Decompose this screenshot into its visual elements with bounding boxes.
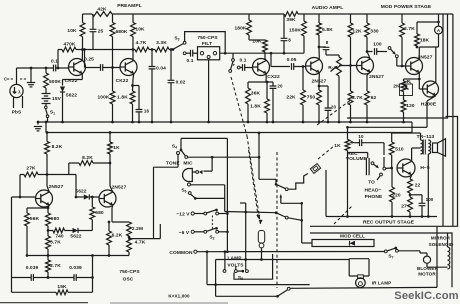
svg-text:1.8K: 1.8K [250,104,261,110]
wire 680 osc1 [47,208,49,213]
resistor 750 [317,90,322,105]
resistor 12K [348,23,353,37]
resistor 8.2K osc1 [45,142,50,155]
junction Q6 base bias [401,65,404,68]
resistor 18K [415,34,420,46]
wire R2 [338,55,340,57]
capacitor 0.1 input [54,65,56,72]
svg-text:MOD CELL: MOD CELL [340,234,365,239]
wire 6.2K top [108,222,110,231]
svg-text:740: 740 [55,234,64,240]
wire -6V [194,231,204,233]
svg-text:0.1: 0.1 [239,58,246,64]
wire feed column [226,138,228,252]
transformer TR-113 [421,140,423,154]
resistor 680K [110,23,115,37]
record head [366,158,369,175]
svg-text:62: 62 [371,95,377,101]
svg-text:8.2K: 8.2K [82,155,93,161]
wire S2a out [219,213,228,215]
svg-text:39K: 39K [286,17,296,23]
junction Q3 emitter [266,81,269,84]
wire Q6 collector [418,47,420,60]
wire 100cap rec [410,194,422,196]
jack plug arrow [280,194,282,198]
svg-text:2.7K: 2.7K [404,26,415,32]
wire 740 left [48,230,53,232]
wire 2.7K mod [350,66,352,92]
wire 0.1 to Q3 base [245,67,253,69]
junction diode bus [61,121,64,124]
switch playrec 2 [276,213,285,217]
resistor 150K [302,21,307,36]
svg-text:6.2K: 6.2K [112,233,123,239]
wire 18K top [417,21,439,23]
svg-text:750-CPS: 750-CPS [197,35,218,41]
svg-text:PHONE: PHONE [365,194,383,200]
wire Q1 collector [81,50,83,61]
resistor 680 osc2 [90,207,95,220]
capacitor 0.1 stage3 [243,64,245,71]
resistor 2.7K mod [348,91,353,105]
wire filter input [186,52,191,54]
resistor 740 [53,228,65,233]
wire osc feed [129,238,160,240]
junction 0.05 feed [270,52,273,55]
svg-text:S2: S2 [209,235,214,241]
wire S6 lower [195,197,224,199]
resistor 56K [25,213,30,226]
switch S1 [45,104,47,107]
wire 500K top [45,68,47,73]
wire top supply bus [83,13,93,15]
svg-text:5622: 5622 [66,93,77,99]
junction 1.8K s3 bus [266,121,269,124]
dashed link S3-lamp a [231,77,247,136]
svg-text:5622: 5622 [75,189,86,195]
resistor 1.8K preamp [130,91,135,104]
capacitor 0.1 filter [191,50,193,57]
resistor 36K [246,88,251,104]
resistor 62 [365,91,370,105]
svg-text:VOLUME: VOLUME [346,156,368,162]
svg-text:36K: 36K [251,91,261,97]
junction cap20 bus [272,121,275,124]
svg-text:8: 8 [326,40,329,45]
wire mic lower [191,184,225,186]
resistor 4.7K osc [127,238,132,252]
resistor 1K osc [108,142,113,154]
wire rec bottom [326,216,437,218]
wire 22-27 [409,193,411,197]
potentiometer RL 2K [401,81,406,92]
wire COMMON to S5 [224,252,226,270]
wire S7 out [398,250,420,252]
wire 10K top [82,14,84,23]
wire filter bottom lead [208,60,210,122]
wire S5 right leg [245,203,247,270]
wire 680 osc2 top [91,197,93,207]
resistor 22 rec [408,179,413,193]
resistor 27 rec [408,197,413,212]
resistor 2.7K osc [46,260,51,272]
wire 2.7K osc [47,256,49,261]
svg-text:25: 25 [98,29,104,35]
wire Q9 base [89,196,99,198]
wire jack to Q6 base [396,58,398,66]
capacitor 10 rec [360,139,362,146]
wire right 0.039 up [92,256,94,278]
wire Q8 base [12,196,36,198]
resistor 39K [284,12,298,17]
svg-text:22: 22 [415,183,421,189]
svg-text:REC OUTPUT STAGE: REC OUTPUT STAGE [363,220,415,226]
svg-text:2.7K: 2.7K [50,263,61,269]
photocell leads [13,97,15,109]
dashed link rec [334,206,352,224]
transistor Q7 H200E [423,81,439,97]
wire COMMON [197,251,385,253]
junction 36K bus [247,121,250,124]
wire Q3 collector [264,52,266,59]
wire 10 rec [354,142,359,144]
diode 5622 preamp [60,87,65,93]
wire diode1 left [76,196,84,198]
switch S3 [172,48,175,51]
wire mod cell feed [301,203,303,243]
svg-text:TR−113: TR−113 [417,134,435,140]
wire 8.2K osc2 left [69,162,79,164]
svg-text:−12 V: −12 V [176,212,190,218]
capacitor 20 stage4 [325,108,332,110]
svg-text:27: 27 [401,204,407,210]
capacitor 0.05 [292,63,294,70]
transistor Q4 2N527 [306,58,323,75]
potentiometer R2 [337,57,342,76]
svg-text:220: 220 [392,193,401,199]
svg-text:15V: 15V [52,96,62,102]
svg-text:COMMON: COMMON [169,250,193,256]
dashed link top right [317,99,352,125]
svg-text:0.02: 0.02 [176,80,186,86]
wire cap 0.02 [170,50,172,81]
dashed gang column [276,152,278,288]
switch S2b [204,230,207,233]
svg-text:150K: 150K [289,28,301,34]
dashed cover C [7,78,26,80]
svg-text:10K: 10K [135,27,145,33]
wire TONE drop [177,155,179,168]
dashed link cross [249,150,259,219]
svg-text:100: 100 [426,197,434,202]
svg-text:CK22: CK22 [116,78,129,84]
wire filter output [220,52,304,54]
wire Q1 emitter [81,73,83,79]
svg-text:0.25: 0.25 [84,57,94,63]
box 750-CPS filter [198,47,220,60]
junction filter bypass [224,52,227,55]
battery 15V [42,94,51,104]
IR lamp [358,275,364,279]
resistor 2.2M [127,222,132,236]
wire 4.7K bottom [128,252,130,256]
resistor 10K stage3 [263,40,268,52]
wire rec line y133 [392,132,421,134]
svg-text:20: 20 [331,105,337,110]
svg-text:S6: S6 [181,188,186,194]
svg-text:100K: 100K [98,95,110,101]
wire lamp column [258,133,260,179]
wire Q8 collector [47,186,49,192]
wire cap8b [319,46,326,48]
wire 10K2 to coll [132,37,134,61]
wire 1K osc [109,133,111,143]
wire pot to head [347,151,349,153]
wire 56K bottom [26,226,28,256]
wire head to base [386,167,392,169]
svg-text:8.2K: 8.2K [52,144,63,150]
wire 8.2K osc1 [46,133,48,142]
switch playrec 1 [276,184,285,188]
transistor Q9 2N527 osc [99,190,116,207]
terminal COMMON [194,250,197,253]
svg-text:12K: 12K [352,29,362,35]
wire speaker return [427,158,429,217]
svg-text:100: 100 [373,42,382,48]
wire 0.25 feed [84,50,86,68]
svg-text:K×X1,000: K×X1,000 [168,294,190,299]
wire 680K top [112,14,114,23]
junction 100K bus [111,121,114,124]
resistor 330 [365,23,370,37]
wire 100cap feed [367,51,373,53]
svg-text:680: 680 [51,216,60,222]
junction Q6 coll [416,46,419,49]
wire Q6 emitter [418,73,420,79]
photocell PbS [10,84,23,97]
svg-text:15K: 15K [57,284,67,290]
wire S4 loop to mic [188,156,213,158]
box MOD CELL [312,240,374,247]
junction 12K base [349,64,352,67]
junction 0.25 feed [83,48,86,51]
junction RL tap [418,78,421,81]
solenoid mirror [448,247,450,269]
svg-text:S4: S4 [172,144,177,150]
junction emitter4 [318,85,321,88]
wire 27K to x76 [47,174,76,176]
svg-text:HEAD−: HEAD− [364,188,381,194]
transistor Q5 2N527 [357,57,374,74]
resistor 510 [389,142,394,155]
junction 10K2 y49 [132,48,135,51]
capacitor 20 stage3 [270,86,277,88]
svg-text:330: 330 [370,29,379,35]
resistor 6.8K [317,23,322,35]
wire rec right [436,216,438,218]
svg-text:OSC: OSC [123,277,134,283]
svg-text:2N527: 2N527 [369,74,384,80]
junction filter bus [207,121,210,124]
wire S3 bypass loop [185,32,226,54]
ground bus [38,121,412,123]
svg-text:1K: 1K [113,145,120,151]
wiper wire rec [351,141,355,144]
wiper R2 [331,67,337,72]
wire 100 to jack [377,51,387,53]
wire osc mid line [27,255,129,257]
potentiometer 1K rec [345,140,350,151]
wire Q7 base [418,79,420,89]
junction 0.04 bus [151,121,154,124]
svg-text:680: 680 [95,210,104,216]
wire 120 [403,92,405,101]
wire Q2 emitter [132,73,135,79]
svg-text:MOD POWER STAGE: MOD POWER STAGE [381,4,432,10]
terminal S5 b [234,270,237,273]
wire interstage y49 [83,49,136,51]
wire 180K to 10K [248,35,250,40]
wire right edge drop [442,14,444,226]
wire cap 0.04 [151,50,153,67]
wire rec output right [442,257,444,259]
capacitor 100 rec [419,203,426,205]
box RL [400,84,413,96]
junction 22K bus [302,121,305,124]
svg-text:22K: 22K [286,95,296,101]
wire 470K right [76,49,83,51]
junction R2 bus [338,121,341,124]
wire to lever2 [246,211,276,214]
svg-text:750: 750 [307,95,316,101]
svg-text:MIC: MIC [183,161,193,167]
capacitor 8 coupling [323,47,330,49]
svg-text:0.05: 0.05 [287,57,297,63]
svg-text:2N527: 2N527 [49,184,64,190]
jack mod in [388,47,391,50]
svg-text:TO: TO [368,180,375,186]
wire mic out [211,156,214,159]
dashed link modcell lamp [318,146,334,159]
terminal filter input [183,52,186,55]
wire Q7 collector [435,47,437,83]
svg-text:3.3K: 3.3K [156,40,167,46]
svg-text:10K: 10K [67,28,77,34]
wire 150K [303,14,305,21]
resistor 10K preamp2 [131,23,136,37]
wire 27K right [38,174,47,176]
wire enclosure 2 [310,233,452,287]
capacitor 0.039 b [74,274,76,281]
svg-text:470K: 470K [64,42,76,48]
svg-text:FILT: FILT [202,41,212,47]
wire Q7 emitter [427,96,436,101]
svg-text:AUDIO AMPL: AUDIO AMPL [312,5,344,11]
wire 62 [367,72,370,75]
switch S4 [180,149,183,152]
wire feedback left [11,197,13,292]
wire 0.25 to Q2 base [103,67,120,69]
supply rail [46,132,412,134]
junction input-500K [45,67,48,70]
transistor Q1 CK22 [69,59,86,76]
svg-text:16: 16 [144,109,150,114]
box S5 lower [234,254,273,279]
capacitor 0.039 a [31,274,33,281]
svg-text:10K: 10K [252,39,262,45]
wire 100K bottom [112,104,114,122]
wire 6.2K bottom [108,245,110,256]
svg-text:4.7K: 4.7K [135,240,146,246]
wire 1.8K s3 [266,82,268,99]
wire 100K top [112,68,114,92]
svg-text:27K: 27K [26,166,36,172]
wire rail stub [45,122,47,133]
svg-text:0.1: 0.1 [186,58,193,64]
svg-text:120: 120 [406,103,415,109]
wire cap25 [92,14,94,29]
junction Q1 coll [81,48,84,51]
wire speaker enclosure [347,14,448,118]
terminal 0.1 stage3 [237,66,240,69]
wire rail right drop [411,122,413,133]
resistor 100K [110,91,115,104]
transistor Q8 2N527 osc [36,190,53,207]
wire 220 [391,168,393,187]
svg-text:CX22: CX22 [267,74,280,80]
wire common drop [206,252,208,285]
svg-text:750-CPS: 750-CPS [119,269,140,275]
svg-text:SOLENOID: SOLENOID [429,242,454,247]
junction 62 bus [366,121,369,124]
wire 2.7K s6 [401,14,403,23]
resistor 680 osc1 [46,213,51,226]
wire pot bottom drop [347,153,349,217]
svg-text:1.8K: 1.8K [117,95,128,101]
wire Q3 coll to 0.05 [270,53,272,66]
svg-text:MOTOR: MOTOR [418,272,436,277]
svg-text:S7: S7 [388,254,393,260]
resistor 120 [401,100,406,112]
junction 120 bus [402,121,405,124]
wire Q9 collector [110,186,113,192]
wiper RL [405,87,409,90]
svg-text:500K: 500K [49,79,61,85]
rec rail [347,126,412,128]
svg-text:0.039: 0.039 [26,265,39,271]
junction Q2 base 100K [111,66,114,69]
svg-text:510: 510 [395,147,404,153]
wire 3.3K to S3 [169,49,173,51]
resistor 4.7K [135,47,149,52]
wire S2b out [219,231,228,233]
svg-text:6.8K: 6.8K [322,27,333,33]
terminal mic lower [188,183,191,186]
terminal S5 c [246,270,249,273]
junction 750 bus [318,121,321,124]
terminal -6V [191,230,194,233]
capacitor 0.25 [101,64,103,71]
wire 1K top [347,127,349,139]
resistor 1.8K stage3 [265,99,270,113]
capacitor 25 [90,29,97,31]
resistor 42K [92,12,112,17]
svg-text:4.7K: 4.7K [136,40,147,46]
transistor Q3 CX22 [253,59,270,76]
wire 6.8K top [318,14,320,23]
resistor 3.7K [46,236,51,249]
wire S5 stub [235,267,237,270]
